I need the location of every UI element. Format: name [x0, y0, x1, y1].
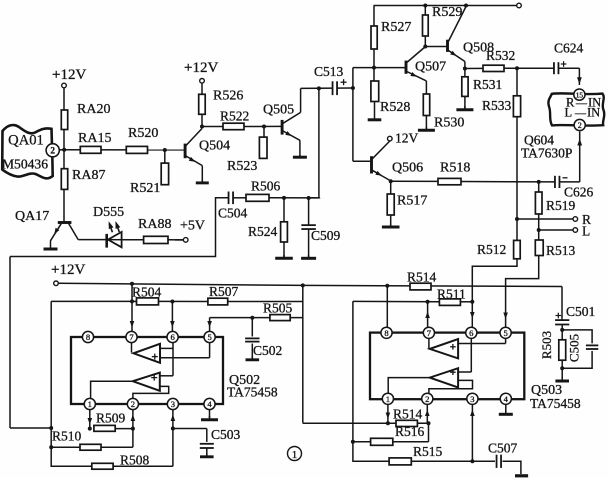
- svg-text:7: 7: [427, 328, 432, 338]
- svg-text:RA20: RA20: [77, 102, 110, 117]
- svg-text:C513: C513: [314, 64, 344, 79]
- svg-text:R532: R532: [486, 48, 515, 63]
- svg-text:4: 4: [207, 399, 212, 409]
- svg-text:R504: R504: [132, 285, 162, 300]
- svg-text:R519: R519: [546, 198, 576, 213]
- svg-text:2: 2: [50, 146, 55, 156]
- svg-text:C503: C503: [211, 427, 241, 442]
- svg-text:5: 5: [207, 332, 211, 342]
- svg-text:D555: D555: [93, 205, 124, 220]
- svg-text:C509: C509: [311, 228, 341, 243]
- svg-text:R528: R528: [380, 100, 410, 115]
- svg-text:TA75458: TA75458: [530, 396, 581, 411]
- svg-text:8: 8: [86, 332, 90, 342]
- svg-text:TA75458: TA75458: [227, 385, 278, 400]
- svg-text:M50436: M50436: [2, 157, 48, 172]
- svg-text:R531: R531: [473, 77, 502, 92]
- svg-text:R517: R517: [397, 194, 427, 209]
- svg-text:R516: R516: [395, 424, 425, 439]
- svg-text:C501: C501: [566, 304, 595, 319]
- svg-text:5: 5: [503, 328, 507, 338]
- svg-text:C502: C502: [253, 343, 282, 358]
- svg-text:6: 6: [170, 332, 175, 342]
- svg-text:R522: R522: [220, 109, 249, 124]
- svg-text:R508: R508: [120, 453, 150, 468]
- svg-text:R520: R520: [128, 126, 158, 141]
- svg-text:R510: R510: [52, 429, 82, 444]
- svg-text:TA7630P: TA7630P: [521, 146, 572, 161]
- svg-text:R509: R509: [96, 411, 126, 426]
- svg-text:2: 2: [578, 121, 582, 130]
- svg-text:R527: R527: [381, 20, 411, 35]
- svg-text:RA88: RA88: [138, 217, 171, 232]
- svg-text:3: 3: [171, 399, 175, 409]
- svg-text:C504: C504: [218, 206, 248, 221]
- svg-text:+12V: +12V: [184, 60, 218, 76]
- svg-text:R507: R507: [209, 284, 239, 299]
- svg-text:R530: R530: [434, 116, 464, 131]
- svg-text:8: 8: [384, 328, 388, 338]
- svg-text:R524: R524: [248, 224, 278, 239]
- svg-text:L: L: [582, 224, 590, 239]
- svg-text:R511: R511: [437, 287, 466, 302]
- svg-text:C507: C507: [488, 441, 518, 456]
- svg-text:QA17: QA17: [15, 209, 49, 224]
- svg-text:1: 1: [386, 394, 390, 404]
- svg-text:C505: C505: [567, 334, 582, 362]
- svg-text:3: 3: [470, 394, 474, 404]
- svg-text:1: 1: [88, 399, 92, 409]
- svg-text:4: 4: [504, 394, 509, 404]
- svg-text:12V: 12V: [395, 131, 419, 146]
- svg-text:R503: R503: [539, 331, 554, 359]
- svg-text:R512: R512: [477, 242, 506, 257]
- svg-text:—: —: [574, 108, 587, 120]
- svg-text:R515: R515: [413, 444, 443, 459]
- svg-text:QA01: QA01: [8, 133, 44, 149]
- svg-text:R513: R513: [546, 243, 576, 258]
- svg-text:R526: R526: [213, 89, 243, 104]
- svg-text:2: 2: [425, 394, 429, 404]
- svg-text:R506: R506: [251, 179, 281, 194]
- svg-text:2: 2: [131, 399, 135, 409]
- svg-text:6: 6: [469, 328, 474, 338]
- svg-text:R505: R505: [263, 301, 293, 316]
- svg-text:+5V: +5V: [180, 219, 205, 234]
- svg-text:R518: R518: [440, 161, 470, 176]
- svg-text:R523: R523: [227, 159, 257, 174]
- svg-text:L: L: [565, 106, 573, 120]
- svg-text:Q504: Q504: [199, 139, 230, 154]
- svg-text:IN: IN: [587, 106, 600, 120]
- svg-text:R514: R514: [407, 270, 437, 285]
- svg-text:R533: R533: [482, 98, 512, 113]
- svg-text:RA15: RA15: [78, 131, 111, 146]
- svg-text:RA87: RA87: [72, 168, 105, 183]
- svg-text:R514: R514: [393, 407, 423, 422]
- svg-text:1: 1: [292, 449, 298, 461]
- svg-text:C624: C624: [554, 41, 584, 56]
- svg-text:7: 7: [129, 332, 134, 342]
- svg-text:Q505: Q505: [263, 102, 294, 117]
- svg-text:R529: R529: [432, 5, 462, 20]
- svg-text:R521: R521: [130, 181, 160, 196]
- svg-text:+12V: +12V: [52, 67, 86, 83]
- svg-text:Q507: Q507: [415, 60, 446, 75]
- svg-text:Q506: Q506: [392, 161, 423, 176]
- svg-text:+12V: +12V: [51, 262, 85, 278]
